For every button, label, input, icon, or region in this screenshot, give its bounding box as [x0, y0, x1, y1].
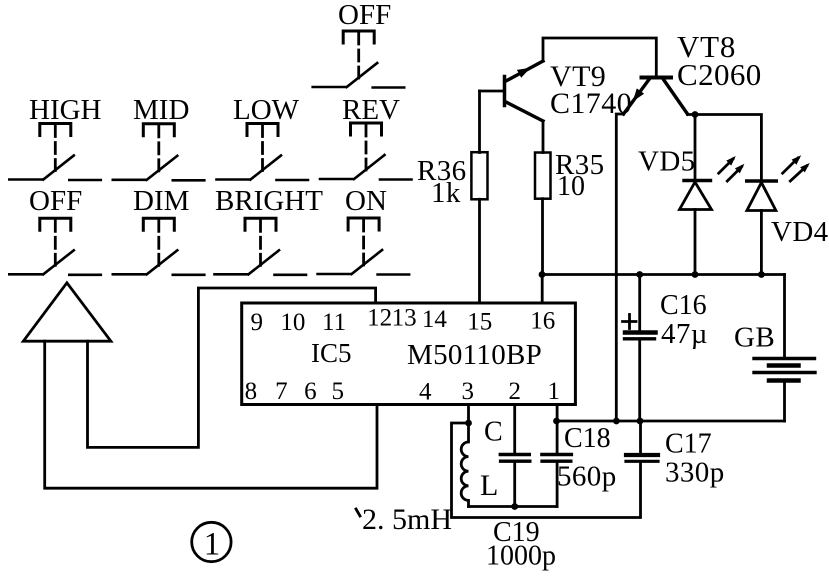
- junction VD5 / rail: [692, 271, 699, 278]
- svg-text:1k: 1k: [431, 177, 461, 209]
- pin 7 label: [275, 378, 288, 405]
- pin 6 label: [304, 378, 317, 405]
- svg-text:7: 7: [275, 378, 288, 405]
- LED VD5 light arrows: [719, 156, 745, 181]
- wire rail to IC pin 16: [541, 275, 544, 304]
- svg-text:8: 8: [245, 378, 258, 405]
- svg-text:M50110BP: M50110BP: [407, 339, 542, 371]
- svg-text:ON: ON: [345, 185, 387, 217]
- value label 2.5mH: [356, 503, 452, 536]
- svg-text:GB: GB: [734, 322, 775, 354]
- svg-text:LOW: LOW: [233, 94, 300, 126]
- pin 9 label: [251, 309, 264, 336]
- wire R35 down to rail junction: [541, 199, 544, 275]
- pin 5 label: [331, 378, 344, 405]
- svg-text:VD4: VD4: [771, 216, 829, 248]
- svg-text:1: 1: [204, 527, 221, 563]
- svg-text:15: 15: [467, 309, 492, 336]
- capacitor C17 330p: [626, 421, 725, 489]
- push-button switch REV: [320, 94, 412, 180]
- pin 15 label: [467, 309, 492, 336]
- transistor VT8 C2060: [624, 29, 762, 114]
- transmitter arrow symbol: [23, 283, 111, 341]
- pin 1 label: [547, 378, 560, 405]
- inductor L 2.5mH: [461, 423, 498, 507]
- wire R36 to IC pin 15: [478, 199, 481, 303]
- svg-text:C2060: C2060: [677, 57, 762, 92]
- svg-text:2: 2: [508, 378, 521, 405]
- wire IC pin 3 stub: [467, 405, 470, 424]
- pin 2 label: [508, 378, 521, 405]
- svg-text:9: 9: [251, 309, 264, 336]
- pin 13 label: [392, 305, 417, 332]
- resistor R35 10: [535, 149, 605, 202]
- junction VD4 / rail: [758, 271, 765, 278]
- battery GB: [734, 275, 815, 422]
- junction VT8 emitter / negative rail: [613, 418, 620, 425]
- junction L/C bottom node: [511, 503, 518, 510]
- op-amp IC5 M50110BP box: [242, 303, 576, 405]
- svg-text:3: 3: [461, 378, 474, 405]
- junction C16 / rail: [636, 271, 643, 278]
- svg-text:16: 16: [530, 308, 555, 335]
- svg-text:VD5: VD5: [638, 146, 696, 178]
- wire VT8 collector to LEDs: [688, 115, 762, 180]
- svg-text:1: 1: [547, 378, 560, 405]
- junction R35 / rail / pin16: [539, 271, 546, 278]
- svg-text:6: 6: [304, 378, 317, 405]
- push-button switch BRIGHT: [215, 185, 324, 275]
- push-button switch MID: [113, 94, 205, 180]
- wire VT9 collector down to R35: [542, 121, 545, 153]
- wire VT8 emitter down to bottom rail: [616, 114, 623, 421]
- svg-text:C: C: [484, 417, 503, 448]
- svg-text:14: 14: [422, 306, 448, 333]
- svg-text:1000p: 1000p: [486, 541, 556, 572]
- svg-text:L: L: [480, 469, 498, 502]
- wire positive rail: [542, 273, 785, 276]
- resistor R36 1k: [417, 152, 488, 209]
- junction pin3 node: [465, 420, 472, 427]
- push-button switch OFF: [9, 185, 101, 275]
- LED VD5: [638, 115, 712, 275]
- wire negative rail: [557, 420, 785, 423]
- svg-text:C16: C16: [660, 290, 707, 321]
- junction VT8 collector / VD5: [692, 111, 699, 118]
- svg-text:4: 4: [419, 379, 432, 406]
- pin 3 label: [461, 378, 474, 405]
- pin 8 label: [245, 378, 258, 405]
- capacitor C18 560p: [542, 405, 617, 507]
- push-button switch ON: [318, 185, 410, 275]
- svg-text:5: 5: [331, 378, 344, 405]
- push-button switch LOW: [217, 94, 309, 180]
- wire pin3 bypass loop to C17: [452, 423, 641, 518]
- wire arrow left body to IC pin 5 area: [45, 341, 377, 488]
- pin 4 label: [419, 379, 432, 406]
- svg-text:13: 13: [392, 305, 417, 332]
- push-button switch DIM: [113, 185, 205, 275]
- svg-text:47µ: 47µ: [661, 318, 708, 350]
- svg-text:10: 10: [557, 171, 585, 202]
- junction pin1 node: [553, 418, 560, 425]
- LED VD4 light arrows: [783, 155, 810, 181]
- wire L bottom to C18 bottom: [469, 505, 558, 508]
- svg-text:2. 5mH: 2. 5mH: [362, 503, 452, 536]
- pin 16 label: [530, 308, 555, 335]
- pin 14 label: [422, 306, 448, 333]
- svg-text:IC5: IC5: [311, 338, 352, 368]
- wire arrow right body to IC pin 12 area: [88, 288, 376, 447]
- svg-text:OFF: OFF: [338, 0, 391, 31]
- svg-text:10: 10: [280, 309, 305, 336]
- transistor VT9 C1740: [480, 60, 633, 121]
- pin 11 label: [322, 309, 346, 336]
- svg-text:C17: C17: [665, 429, 712, 460]
- svg-text:HIGH: HIGH: [29, 94, 102, 126]
- svg-text:OFF: OFF: [29, 185, 82, 217]
- svg-text:DIM: DIM: [133, 185, 189, 217]
- push-button switch HIGH: [9, 94, 101, 180]
- svg-text:MID: MID: [133, 94, 189, 126]
- svg-text:BRIGHT: BRIGHT: [215, 185, 323, 217]
- LED VD4: [747, 181, 829, 275]
- value label C19 1000p: [486, 517, 556, 572]
- capacitor C16 47u electrolytic: [623, 275, 708, 422]
- svg-text:12: 12: [367, 305, 392, 332]
- wire VT9 emitter to top rail: [543, 38, 656, 76]
- svg-text:11: 11: [322, 309, 346, 336]
- figure number (1): [192, 522, 231, 562]
- svg-text:330p: 330p: [665, 457, 725, 489]
- junction C16 bottom / C17 top: [637, 418, 644, 425]
- capacitor C (oscillator): [484, 405, 530, 507]
- push-button switch OFF (top): [313, 0, 405, 88]
- wire VT9 base down to R36: [478, 91, 481, 153]
- svg-text:REV: REV: [342, 94, 400, 126]
- pin 10 label: [280, 309, 305, 336]
- svg-text:C18: C18: [564, 423, 611, 454]
- svg-text:560p: 560p: [557, 461, 617, 493]
- pin 12 label: [367, 305, 392, 332]
